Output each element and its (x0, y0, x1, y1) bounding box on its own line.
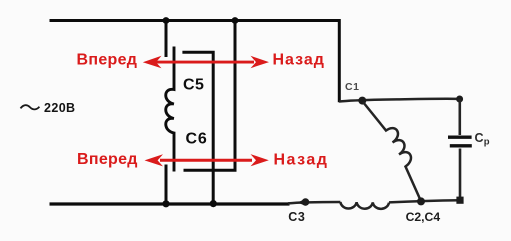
node: junction dot on bottom wire at x=166 (162, 200, 169, 207)
svg-text:Назад: Назад (274, 152, 329, 169)
svg-text:220В: 220В (44, 101, 75, 115)
wire: hand-drawn bottom line continuation to Cp branch (389, 200, 460, 202)
capacitor Cp bottom plate (450, 144, 472, 147)
annotation: red double arrow (top) (143, 56, 269, 69)
svg-text:C: C (475, 131, 484, 145)
node C2,C4 junction dot (417, 197, 425, 205)
source label ~220V (21, 101, 76, 115)
node: bottom-right junction square dot (456, 197, 463, 204)
svg-text:C6: C6 (186, 131, 208, 148)
node C1 junction dot (358, 97, 366, 105)
svg-text:p: p (484, 136, 490, 147)
capacitor Cp lower lead (459, 149, 462, 201)
inductor: horizontal winding on bottom wire (340, 202, 389, 209)
wire: vertical from top wire down to lower bracket contact (184, 22, 236, 170)
wire: top supply line L with corner down to node C1 (50, 21, 340, 103)
svg-text:C5: C5 (183, 77, 204, 94)
svg-text:Вперед: Вперед (77, 151, 138, 168)
capacitor Cp branch: upper lead (458, 99, 461, 135)
svg-text:C1: C1 (345, 81, 360, 93)
wire: upper fixed-contact stub from top wire (165, 19, 168, 57)
svg-text:C2,C4: C2,C4 (406, 210, 441, 224)
wire: bottom supply line N (50, 202, 290, 205)
node C3 junction dot with spur (298, 198, 310, 206)
capacitor Cp top plate (448, 135, 472, 138)
annotation: red double arrow (bottom) (145, 154, 269, 166)
svg-text:C3: C3 (288, 210, 305, 224)
wire: upper bracket contact to vertical down to bottom wire (182, 52, 213, 203)
node: junction dot on top wire at x=166 (163, 17, 170, 24)
inductor C5/C6 starting winding with leads (166, 47, 174, 172)
svg-text:Назад: Назад (273, 52, 325, 69)
label Cp (475, 131, 490, 148)
node: junction dot on top wire at x=235 (232, 17, 239, 24)
wire: lower fixed-contact stub from bottom wire (165, 165, 168, 205)
svg-text:Вперед: Вперед (77, 52, 138, 69)
wire: hand-drawn bottom line from supply to Cp branch with inductor (288, 202, 340, 203)
inductor: main run winding (diagonal) from C1 to C2,C4 (363, 102, 421, 201)
node: junction dot on bottom wire at x=213 (210, 200, 217, 207)
wire: hand-drawn top horizontal from corner to capacitor branch (339, 99, 460, 102)
node: top-right junction dot (456, 96, 463, 103)
